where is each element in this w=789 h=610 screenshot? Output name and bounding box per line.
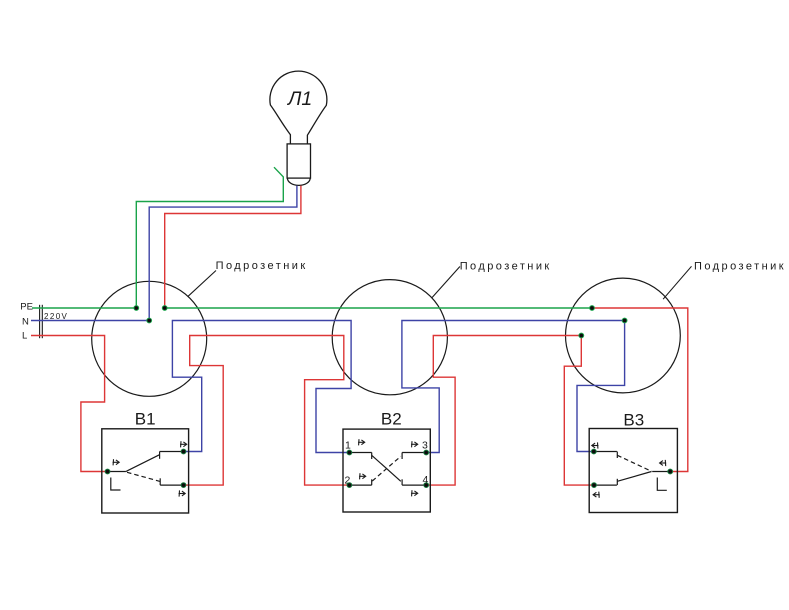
switch B2 arrow t4 — [411, 490, 418, 496]
switch B3 terminal common — [668, 469, 673, 474]
switch B2 terminal 2 — [347, 483, 352, 488]
switch B1 contacts — [108, 452, 184, 486]
wire return line to B3 common (red) — [592, 308, 688, 472]
switch B3 box — [589, 429, 677, 513]
svg-text:Л1: Л1 — [286, 88, 312, 110]
switch B2 terminal 1 — [347, 450, 352, 455]
svg-text:B1: B1 — [135, 410, 156, 429]
wire switched B2 to B3 (red) — [426, 336, 594, 486]
switch B3 contacts — [594, 452, 670, 486]
wire N supply (blue) — [31, 320, 149, 322]
switch B3 terminal lower-left — [592, 483, 597, 488]
junction box circle 3 — [566, 278, 681, 393]
lamp base bottom arc — [287, 178, 310, 185]
wire N lamp (blue) — [149, 186, 297, 321]
switch B1 terminal upper — [181, 449, 186, 454]
switch B3 arrow upper-left — [592, 442, 599, 448]
svg-text:B3: B3 — [623, 410, 644, 429]
switch B1 letter L — [111, 478, 121, 491]
switch B1 arrow common — [113, 459, 120, 465]
wire L lamp (red) — [165, 186, 301, 308]
node N-lamp junction — [147, 318, 152, 323]
switch B1 terminal lower — [181, 483, 186, 488]
svg-text:PE: PE — [20, 302, 33, 313]
svg-text:220V: 220V — [44, 312, 68, 321]
lamp U Л1 bulb circle — [270, 71, 327, 185]
svg-text:3: 3 — [422, 439, 428, 451]
svg-text:B2: B2 — [381, 410, 402, 429]
switch B2 arrow t3 — [411, 441, 418, 447]
node green-red junction circle3 — [590, 306, 595, 311]
wire PE main run (green) — [165, 307, 592, 309]
node red bend circle3 — [579, 333, 584, 338]
switch B2 contacts — [349, 453, 426, 486]
svg-text:Подрозетник: Подрозетник — [216, 260, 308, 272]
wire L supply to B1 common (red) — [31, 336, 108, 472]
switch B3 arrow common — [660, 460, 667, 466]
switch B3 arrow lower-left — [593, 492, 600, 498]
svg-text:Подрозетник: Подрозетник — [694, 261, 786, 273]
switch B3 terminal upper-left — [591, 449, 596, 454]
switch B1 arrow upper — [180, 441, 187, 447]
node blue bend circle3 — [622, 318, 627, 323]
switch B2 terminal 4 — [424, 483, 429, 488]
switch B2 terminal 3 — [424, 450, 429, 455]
switch B2 box — [343, 429, 430, 512]
switch B1 arrow lower — [179, 490, 186, 496]
junction box circle 2 — [332, 280, 447, 395]
node PE-lamp junction — [134, 306, 139, 311]
leader line 3 — [663, 266, 691, 299]
wire PE lamp pigtail (green) — [136, 167, 283, 308]
wire traveler B1 to B2 (blue) — [172, 321, 351, 453]
wire PE supply (green) — [32, 307, 136, 309]
wire traveler B2 to B3 (blue) — [402, 321, 625, 453]
junction box circle 1 — [92, 281, 207, 396]
switch B1 box — [102, 429, 189, 513]
node L-lamp junction — [162, 306, 167, 311]
svg-text:1: 1 — [345, 439, 351, 451]
leader line 2 — [432, 267, 460, 298]
supply cable double bar — [40, 305, 43, 338]
switch B2 arrow t2 — [359, 473, 366, 479]
switch B3 letter L — [657, 478, 667, 491]
switch B1 terminal common — [105, 469, 110, 474]
svg-text:Подрозетник: Подрозетник — [460, 260, 552, 272]
lamp base rect — [287, 144, 310, 178]
leader line 1 — [188, 271, 216, 297]
switch B2 arrow t1 — [358, 439, 365, 445]
svg-text:L: L — [22, 331, 27, 342]
svg-text:N: N — [22, 316, 29, 327]
wire switched B1 to B2 (red) — [184, 336, 350, 486]
